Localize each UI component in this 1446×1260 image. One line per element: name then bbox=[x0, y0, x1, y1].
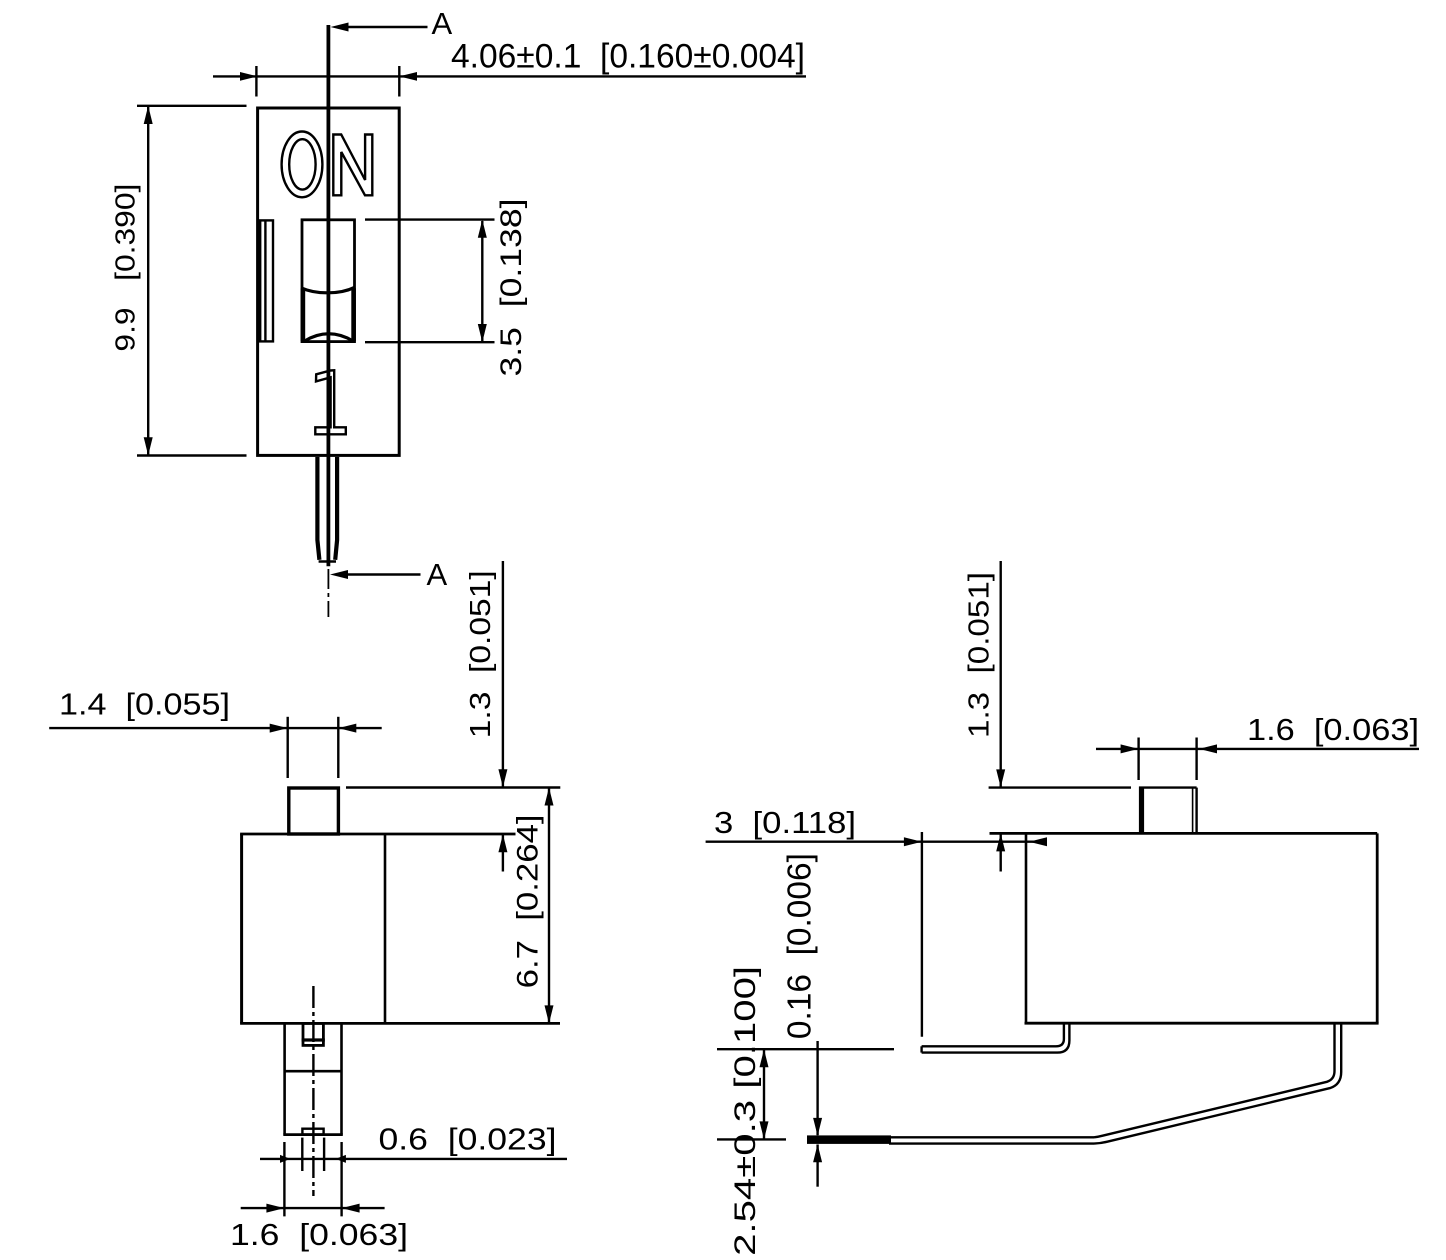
svg-text:0.16 [0.006]: 0.16 [0.006] bbox=[781, 853, 818, 1039]
svg-text:9.9 [0.390]: 9.9 [0.390] bbox=[110, 184, 141, 352]
svg-text:4.06±0.1 [0.160±0.004]: 4.06±0.1 [0.160±0.004] bbox=[451, 38, 805, 76]
svg-text:2.54±0.3 [0.100]: 2.54±0.3 [0.100] bbox=[729, 966, 762, 1256]
svg-text:3 [0.118]: 3 [0.118] bbox=[714, 805, 856, 840]
svg-text:3.5 [0.138]: 3.5 [0.138] bbox=[495, 199, 528, 377]
svg-text:1.6 [0.063]: 1.6 [0.063] bbox=[230, 1217, 408, 1252]
svg-text:1.6 [0.063]: 1.6 [0.063] bbox=[1247, 712, 1419, 747]
svg-text:6.7 [0.264]: 6.7 [0.264] bbox=[512, 814, 545, 988]
svg-text:A: A bbox=[432, 6, 453, 41]
svg-text:1.3 [0.051]: 1.3 [0.051] bbox=[465, 570, 497, 738]
svg-text:A: A bbox=[427, 557, 448, 592]
svg-text:1.3 [0.051]: 1.3 [0.051] bbox=[964, 572, 996, 738]
svg-text:0.6 [0.023]: 0.6 [0.023] bbox=[379, 1122, 557, 1157]
svg-text:1.4 [0.055]: 1.4 [0.055] bbox=[59, 687, 230, 722]
